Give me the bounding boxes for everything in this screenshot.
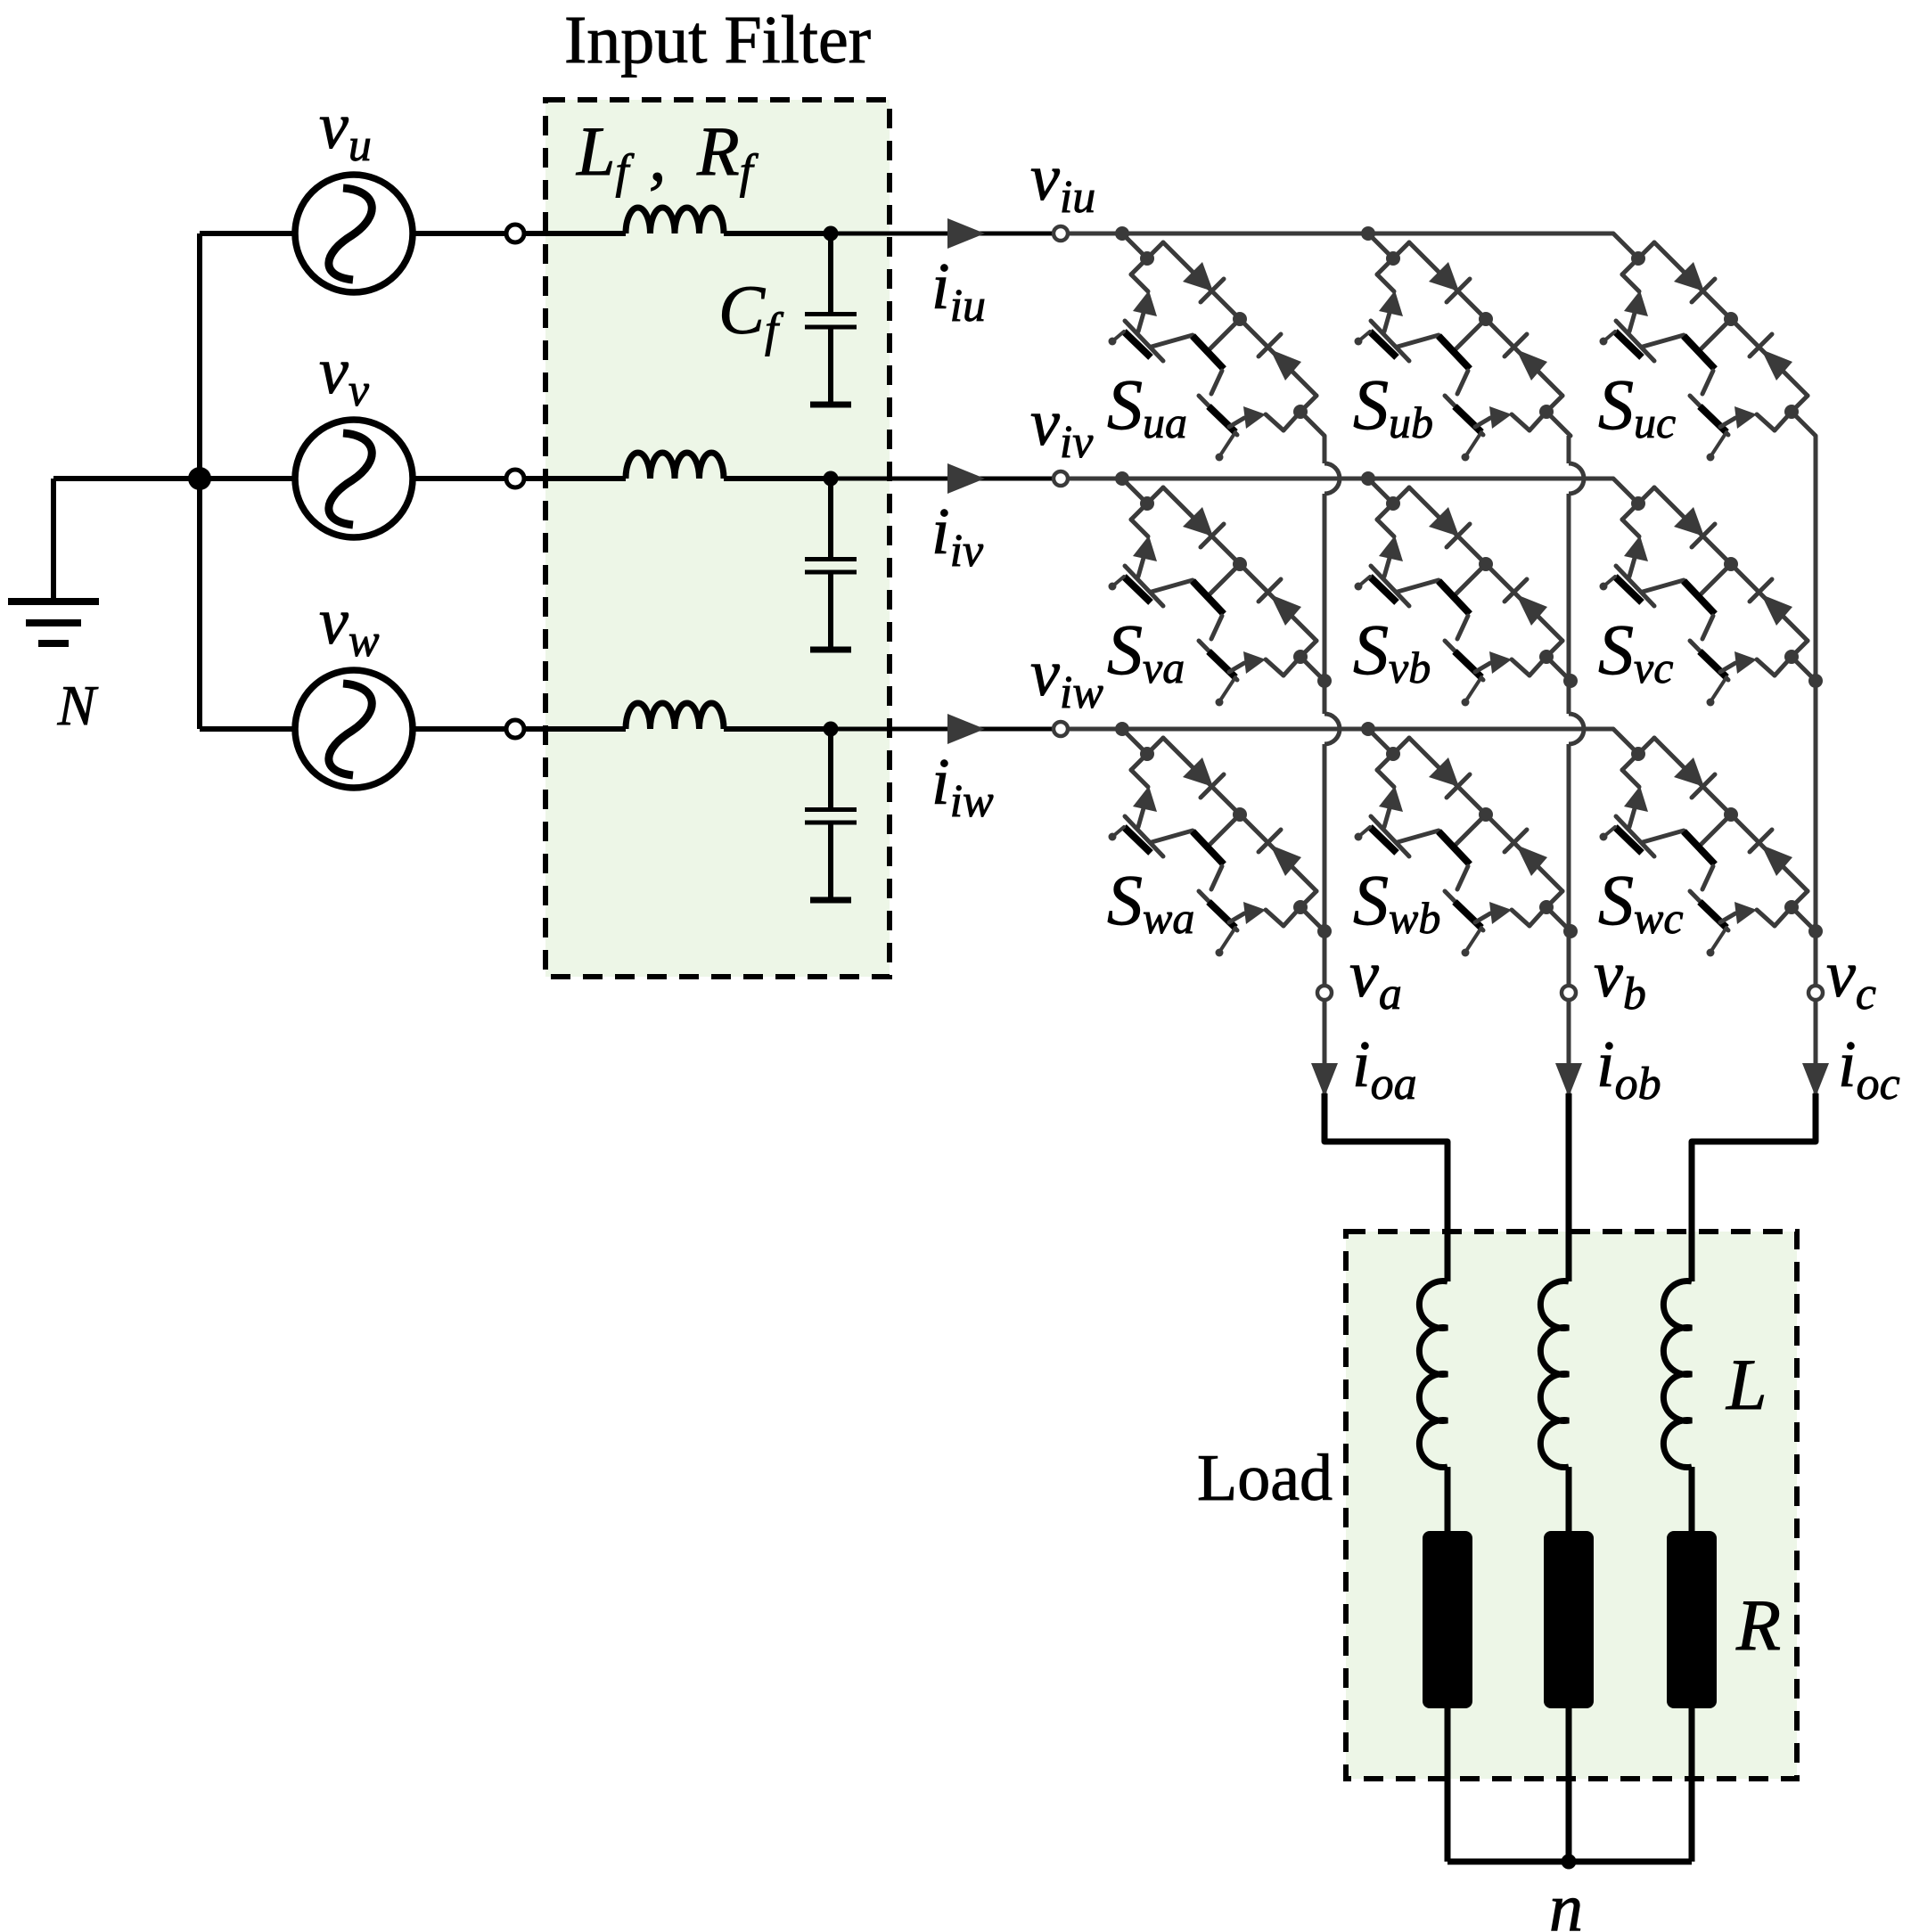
wire S_vb output diagonal (1529, 657, 1546, 675)
node n (1562, 1854, 1577, 1870)
transistor S_vb Q2 (1439, 581, 1470, 614)
diode S_wb D1 (1429, 757, 1459, 787)
current arrow i_iw (947, 714, 985, 744)
resistor R phase b (1544, 1531, 1594, 1708)
wire S_wc input diagonal (1613, 729, 1638, 754)
wire S_wa lower branch (1131, 754, 1147, 770)
wire neutral vertical (197, 233, 202, 729)
transistor S_uc Q2 (1684, 336, 1715, 369)
transistor S_wb Q2 (1439, 831, 1470, 864)
svg-text:n: n (1549, 1871, 1583, 1932)
terminal u open circle (506, 225, 524, 242)
jump over v bus column b (1569, 463, 1584, 494)
wire S_va input diagonal (1122, 479, 1147, 503)
wire S_wb lower branch (1377, 754, 1393, 770)
node S_va midpoint (1233, 557, 1247, 571)
wire S_wa input diagonal (1122, 729, 1147, 754)
ground N (51, 479, 56, 602)
svg-text:,: , (649, 118, 667, 195)
wire resistor to star point b (1566, 1708, 1572, 1862)
wire S_vc emitter link (1643, 580, 1684, 592)
diode S_uc D1 (1674, 262, 1704, 291)
output column c wire (1814, 436, 1818, 986)
svg-text:Load: Load (1197, 1442, 1333, 1515)
wire below terminal c (1814, 1000, 1818, 1142)
voltage source v_v (200, 476, 297, 481)
wire S_va mid connector (1210, 564, 1240, 594)
diode S_ub D2 (1505, 334, 1527, 356)
transistor S_wa Q2 (1193, 831, 1224, 864)
wire S_wa emitter link (1152, 831, 1193, 842)
transistor S_vc Q2 (1684, 581, 1715, 614)
wire row v to cap node (724, 476, 831, 481)
inductor L phase c (1663, 1281, 1692, 1468)
current arrow i_iu (947, 218, 985, 249)
wire row v to matrix (831, 477, 1054, 481)
transistor S_vc Q1 (1624, 536, 1648, 561)
inductor Lf row w (626, 703, 724, 729)
wire S_ub lower branch (1377, 258, 1393, 274)
wire u into filter (524, 231, 626, 236)
svg-text:L: L (1726, 1344, 1767, 1425)
wire S_wa output diagonal (1283, 907, 1300, 926)
wire S_wc output diagonal (1775, 907, 1792, 926)
wire S_va output diagonal (1283, 657, 1300, 675)
wire jog to load b (1566, 1093, 1572, 1281)
wire S_ub mid connector (1456, 319, 1486, 349)
wire S_ua emitter link (1152, 335, 1193, 347)
jump over w bus column b (1569, 714, 1584, 744)
diode S_wb D2 (1505, 830, 1527, 852)
wire resistor to star point c (1689, 1708, 1695, 1862)
svg-text:N: N (57, 674, 99, 737)
node S_vb midpoint (1479, 557, 1493, 571)
wire S_wa upper branch (1147, 738, 1163, 754)
transistor S_ua Q1 (1133, 291, 1157, 316)
diode S_wc D2 (1750, 830, 1772, 852)
transistor S_va Q1 (1133, 536, 1157, 561)
capacitor Cf row v (828, 479, 833, 559)
bus v_iv (1068, 477, 1613, 481)
diode S_ua D1 (1183, 262, 1213, 291)
wire S_vc lower branch (1622, 503, 1638, 520)
diode S_vc D2 (1750, 579, 1772, 602)
wire S_uc upper branch (1638, 242, 1654, 258)
bus v_iw (1068, 727, 1613, 732)
wire row w to matrix (831, 727, 1054, 732)
capacitor Cf row u (828, 233, 833, 314)
diode S_va D2 (1259, 579, 1281, 602)
wire row u to matrix (831, 232, 1054, 236)
wire S_wc mid connector (1701, 815, 1731, 845)
node S_wc midpoint (1724, 807, 1738, 822)
voltage source v_w (200, 726, 297, 732)
wire S_wb input diagonal (1368, 729, 1393, 754)
transistor S_va Q2 (1193, 581, 1224, 614)
jump over w bus column a (1324, 714, 1340, 744)
wire S_ub output diagonal (1529, 412, 1546, 430)
wire S_ua upper branch (1147, 242, 1163, 258)
node S_wb midpoint (1479, 807, 1493, 822)
node S_vc midpoint (1724, 557, 1738, 571)
current arrow i_oc (1802, 1063, 1829, 1097)
terminal w open circle (506, 720, 524, 738)
wire S_vc input diagonal (1613, 479, 1638, 503)
wire ground to neutral junction (53, 476, 200, 481)
inductor Lf row u (626, 208, 724, 233)
wire v into filter (524, 476, 626, 481)
node S_wa midpoint (1233, 807, 1247, 822)
wire S_wb mid connector (1456, 815, 1486, 845)
wire S_uc output diagonal (1775, 412, 1792, 430)
wire S_ub upper branch (1393, 242, 1409, 258)
wire S_vc output diagonal (1775, 657, 1792, 675)
wire S_wb output diagonal (1529, 907, 1546, 926)
terminal v_c open circle (1808, 986, 1823, 1000)
wire S_ua mid connector (1210, 319, 1240, 349)
wire coil to resistor c (1689, 1467, 1695, 1531)
wire S_uc emitter link (1643, 335, 1684, 347)
terminal v_a open circle (1317, 986, 1332, 1000)
wire S_wb emitter link (1398, 831, 1439, 842)
wire jog to load c (1692, 1093, 1816, 1281)
wire S_vb lower branch (1377, 503, 1393, 520)
terminal v_iv open circle (1054, 471, 1068, 486)
transistor S_uc Q1 (1624, 291, 1648, 316)
diode S_wa D2 (1259, 830, 1281, 852)
diode S_vb D1 (1429, 507, 1459, 536)
inductor Lf row v (626, 453, 724, 479)
wire S_uc mid connector (1701, 319, 1731, 349)
transistor S_wc Q2 (1684, 831, 1715, 864)
node S_ub midpoint (1479, 312, 1493, 326)
current arrow i_iv (947, 463, 985, 494)
switch S_ub (1355, 226, 1571, 462)
inductor L phase b (1540, 1281, 1569, 1468)
wire S_vc mid connector (1701, 564, 1731, 594)
wire resistor to star point a (1445, 1708, 1451, 1862)
wire w into filter (524, 726, 626, 732)
current arrow i_ob (1555, 1063, 1582, 1097)
terminal v_iw open circle (1054, 722, 1068, 736)
svg-text:R: R (1735, 1584, 1781, 1666)
wire below terminal a (1323, 1000, 1327, 1142)
capacitor Cf row w (828, 729, 833, 809)
transistor S_ub Q2 (1439, 336, 1470, 369)
load box (1346, 1232, 1797, 1779)
node S_uc midpoint (1724, 312, 1738, 326)
diode S_wc D1 (1674, 757, 1704, 787)
terminal v_b open circle (1562, 986, 1576, 1000)
current arrow i_oa (1311, 1063, 1338, 1097)
switch S_vb (1355, 471, 1579, 707)
switch S_wb (1355, 722, 1579, 957)
switch S_ua (1109, 226, 1325, 462)
node S_ua midpoint (1233, 312, 1247, 326)
switch S_vc (1600, 479, 1824, 707)
wire S_vb emitter link (1398, 580, 1439, 592)
transistor S_wa Q1 (1133, 786, 1157, 812)
wire S_ub input diagonal (1368, 233, 1393, 258)
transistor S_vb Q1 (1379, 536, 1403, 561)
switch S_va (1109, 471, 1333, 707)
wire jog to load a (1324, 1093, 1447, 1281)
wire row u to cap node (724, 231, 831, 236)
resistor R phase c (1667, 1531, 1717, 1708)
diode S_vc D1 (1674, 507, 1704, 536)
resistor R phase a (1423, 1531, 1472, 1708)
wire S_uc input diagonal (1613, 233, 1638, 258)
diode S_vb D2 (1505, 579, 1527, 602)
wire S_va lower branch (1131, 503, 1147, 520)
transistor S_ua Q2 (1193, 336, 1224, 369)
output column a wire (1323, 436, 1327, 463)
wire S_ub emitter link (1398, 335, 1439, 347)
wire row w to cap node (724, 726, 831, 732)
wire S_ua input diagonal (1122, 233, 1147, 258)
switch S_uc (1600, 233, 1816, 462)
transistor S_wc Q1 (1624, 786, 1648, 812)
node cap junction u (824, 226, 839, 241)
output column b wire (1567, 436, 1571, 463)
diode S_uc D2 (1750, 334, 1772, 356)
voltage source v_u (200, 231, 297, 236)
input filter box (545, 100, 890, 977)
wire S_vb input diagonal (1368, 479, 1393, 503)
bus v_iu (1068, 232, 1613, 236)
terminal v_iu open circle (1054, 226, 1068, 241)
switch S_wa (1109, 722, 1333, 957)
wire S_ua output diagonal (1283, 412, 1300, 430)
wire coil to resistor a (1445, 1467, 1451, 1531)
switch S_wc (1600, 729, 1824, 957)
wire S_va emitter link (1152, 580, 1193, 592)
wire star connection (1447, 1859, 1692, 1865)
node cap junction v (824, 471, 839, 487)
diode S_wa D1 (1183, 757, 1213, 787)
wire S_wc lower branch (1622, 754, 1638, 770)
wire S_wb upper branch (1393, 738, 1409, 754)
transistor S_wb Q1 (1379, 786, 1403, 812)
svg-text:Input Filter: Input Filter (564, 3, 871, 78)
terminal v open circle (506, 470, 524, 487)
wire S_wa mid connector (1210, 815, 1240, 845)
diode S_ua D2 (1259, 334, 1281, 356)
wire below terminal b (1567, 1000, 1571, 1142)
wire S_uc lower branch (1622, 258, 1638, 274)
diode S_va D1 (1183, 507, 1213, 536)
diode S_ub D1 (1429, 262, 1459, 291)
wire S_vc upper branch (1638, 487, 1654, 503)
wire S_vb mid connector (1456, 564, 1486, 594)
wire S_wc emitter link (1643, 831, 1684, 842)
node neutral junction (188, 467, 211, 490)
wire S_vb upper branch (1393, 487, 1409, 503)
wire coil to resistor b (1566, 1467, 1572, 1531)
wire S_wc upper branch (1638, 738, 1654, 754)
transistor S_ub Q1 (1379, 291, 1403, 316)
jump over v bus column a (1324, 463, 1340, 494)
node cap junction w (824, 722, 839, 737)
inductor L phase a (1419, 1281, 1447, 1468)
wire S_ua lower branch (1131, 258, 1147, 274)
wire S_va upper branch (1147, 487, 1163, 503)
